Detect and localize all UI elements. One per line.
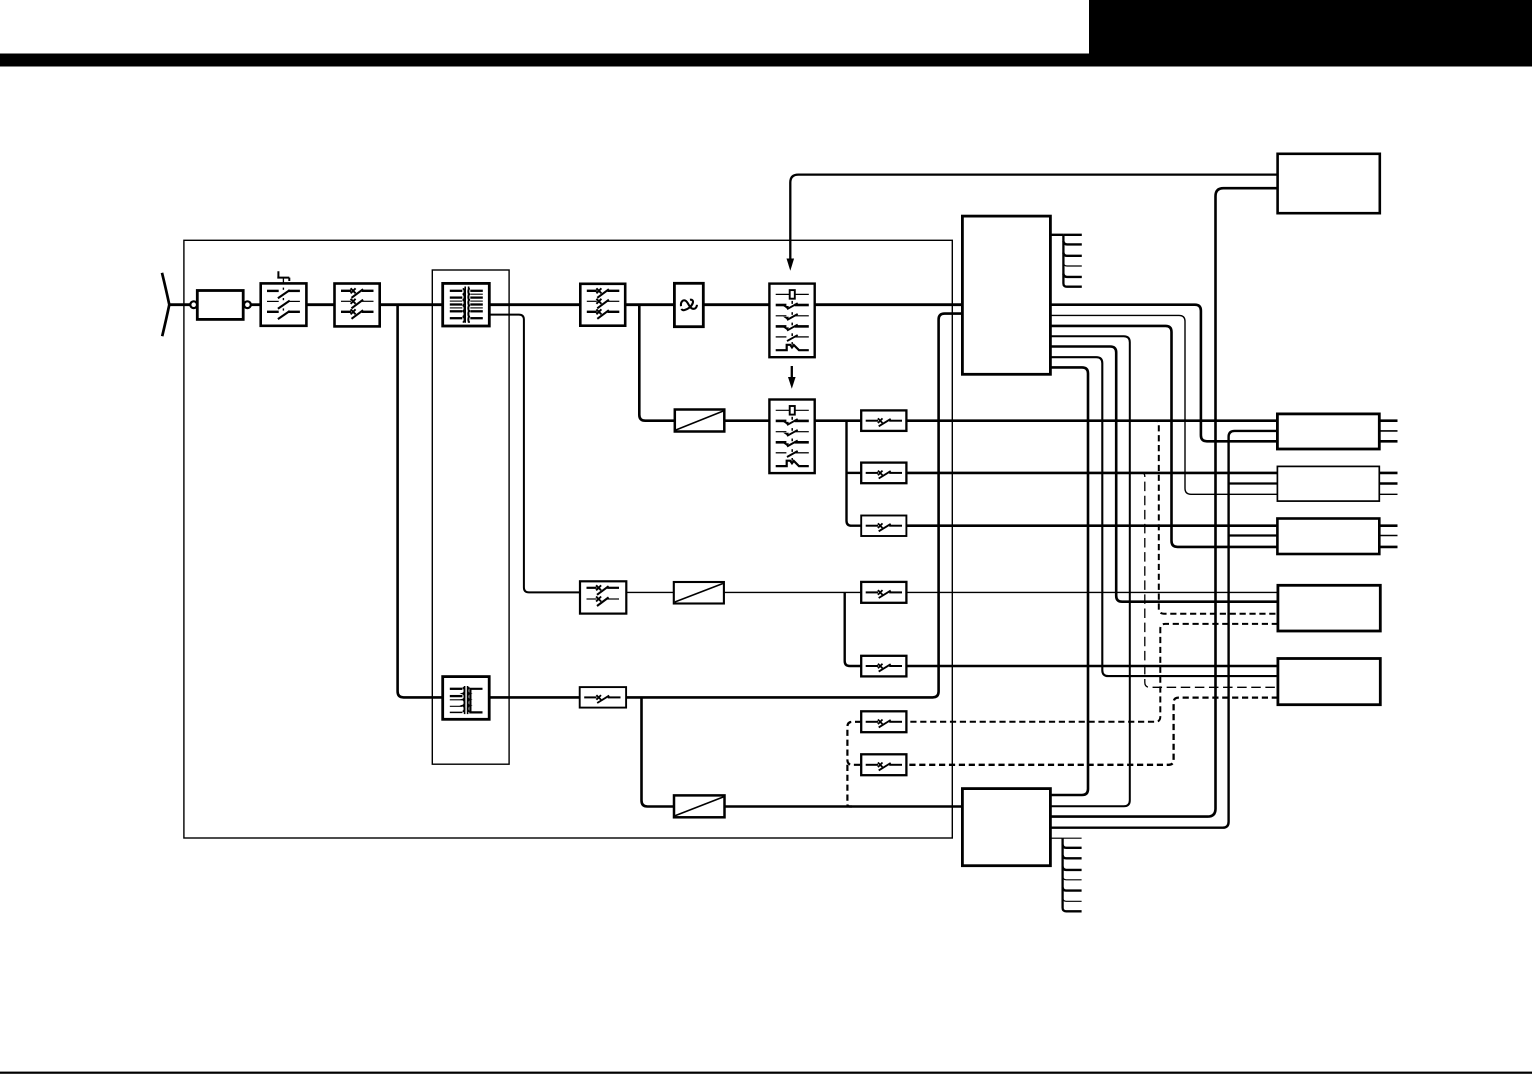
relay switch box K2 xyxy=(580,284,625,326)
connector terminal circle left xyxy=(190,301,197,308)
dashed wire motor unit row4 to relay K8 xyxy=(906,624,1278,722)
wire mains bus program selector S1 to control unit A1 xyxy=(815,303,963,306)
page header rule bar xyxy=(0,54,1532,67)
wire row L2 relay K4 to heater unit2 xyxy=(906,472,1277,475)
pump unit xyxy=(1278,659,1380,705)
motor unit xyxy=(1278,585,1380,631)
mains plug xyxy=(162,273,169,336)
wire row L4 relay K6 to motor unit xyxy=(906,591,1278,593)
wire row L5 relay K7 to pump unit xyxy=(906,665,1278,667)
wire rectifier G1 to program selector S2 xyxy=(724,419,769,422)
power unit A2 xyxy=(962,789,1050,866)
wire control output 1 to heater unit row3 xyxy=(1050,305,1277,442)
heater unit3 stubs xyxy=(1379,524,1397,527)
transformer T2 xyxy=(443,677,490,720)
wire row L4 switch box S3 feed from transformer T1 secondary xyxy=(489,315,580,593)
heater unit2 xyxy=(1277,466,1379,501)
wire mains bus transformer T1 to relay box K2 xyxy=(489,303,580,306)
wire mains bus AC module to program selector S1 xyxy=(703,303,769,306)
dashed wire tap row L1 down to motor unit row3 xyxy=(1152,421,1278,614)
connector terminal circle right xyxy=(244,301,251,308)
door switch box S0 with cam symbol xyxy=(261,283,307,325)
control unit connector comb xyxy=(1063,235,1081,287)
outer chassis enclosure box xyxy=(184,240,952,838)
wire control output 5 to motor unit row2 xyxy=(1050,347,1278,602)
wire row L4 switch box S3 to rectifier G2 xyxy=(626,591,674,593)
wire mains bus filter to door-switch box xyxy=(250,303,260,306)
relay K4 xyxy=(861,463,906,484)
wire row L4 rectifier G2 to relay K6 xyxy=(724,591,861,593)
interference filter Z1 xyxy=(197,291,243,320)
transformer sub-enclosure box xyxy=(432,270,509,764)
wire mains bus relay box K2 to AC module xyxy=(625,303,674,306)
program selector S2 xyxy=(769,400,814,474)
wire tap riser to heater unit2 row2 xyxy=(1229,482,1278,484)
wire row L3 relay K5 to heater unit3 xyxy=(906,524,1277,527)
relay K9 xyxy=(861,754,906,775)
wire control output 7 to power unit input 2 xyxy=(1050,367,1088,795)
dashed wire tap row L2 down to pump unit row3 xyxy=(1138,473,1278,687)
display unit xyxy=(1278,154,1380,213)
wire branch down to relays K4 K5 xyxy=(847,421,862,526)
relay K7 xyxy=(861,656,906,677)
arrowhead at program selector S1 xyxy=(787,259,795,271)
wire row L1 selector S2 to relay K3 to heater unit xyxy=(815,419,862,422)
rectifier G2 xyxy=(674,582,724,604)
wire control output 4 to power unit input xyxy=(1050,336,1129,806)
heater unit2 stubs xyxy=(1379,472,1397,475)
wire mains bus door-switch box to relay box K1 xyxy=(306,303,334,306)
rectifier G1 xyxy=(675,410,725,432)
wire relay K4 feed xyxy=(847,472,862,474)
relay K6 xyxy=(861,582,906,603)
page footer rule xyxy=(0,1072,1532,1074)
heater unit stubs xyxy=(1379,419,1397,422)
wire control output 6 to pump unit row2 xyxy=(1050,357,1278,676)
wire control output 3 to heater unit3 row3 xyxy=(1050,326,1277,547)
wire tap riser to heater unit3 row2 xyxy=(1229,534,1278,536)
switch box S3 xyxy=(580,581,626,613)
arrow between program selectors xyxy=(791,366,793,378)
rectifier G3 xyxy=(674,795,725,817)
relay K5 xyxy=(861,516,906,537)
wire mains bus relay box K1 to transformer T1 xyxy=(380,303,443,306)
relay switch box K1 xyxy=(335,284,380,327)
heater unit3 xyxy=(1277,519,1379,555)
wire rectifier G3 to power unit xyxy=(725,805,963,808)
wire branch down to rectifier G3 xyxy=(642,697,675,806)
relay K3 xyxy=(861,410,906,431)
switch S4 xyxy=(580,687,626,708)
page header black tab top-right xyxy=(1089,0,1532,67)
wire branch bus down to transformer T2 xyxy=(398,305,443,698)
wire power unit return riser to bottom box xyxy=(1050,431,1277,828)
dashed wire pump unit row4 to relay K9 xyxy=(906,698,1278,765)
wire branch down to relay K7 xyxy=(845,592,862,666)
wire control output 2 to heater unit2 row3 xyxy=(1050,315,1277,494)
transformer T1 xyxy=(443,283,490,326)
relay K8 xyxy=(861,711,906,732)
wire display unit to vertical riser xyxy=(1050,188,1277,816)
power unit connector comb xyxy=(1063,838,1082,911)
wire control line with arrow to program selector S1 xyxy=(790,175,1277,259)
AC sine module xyxy=(674,283,703,326)
wire mains bus plug to filter xyxy=(169,303,190,306)
wire branch bus down to rectifier G1 xyxy=(639,305,675,421)
heater unit xyxy=(1277,414,1379,449)
dashed wire relay K8 link to relay K9 and power row xyxy=(847,722,861,765)
control unit A1 xyxy=(962,216,1050,374)
program selector S1 xyxy=(769,284,814,358)
wire transformer T2 to switch S4 xyxy=(489,696,580,699)
wire switch S4 to control unit return riser xyxy=(626,314,962,698)
